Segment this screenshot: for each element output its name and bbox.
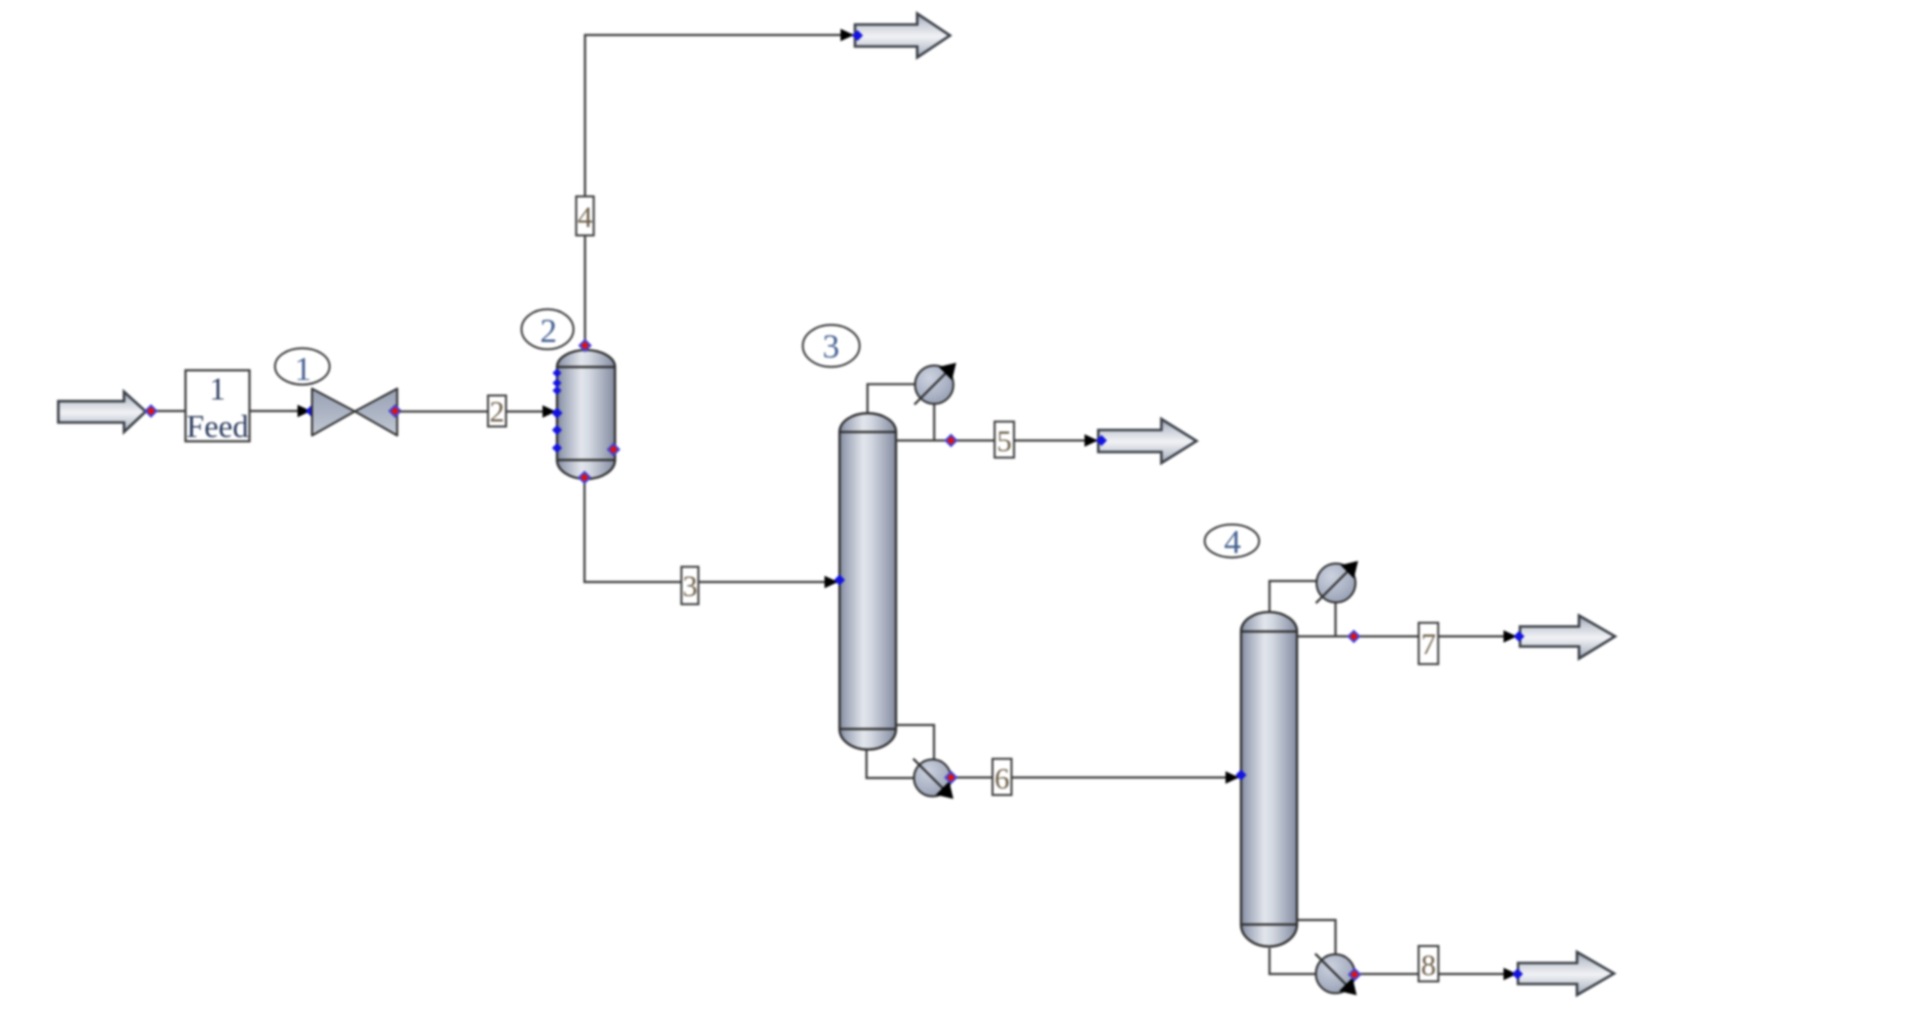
reboiler B3 diagonal <box>913 759 947 793</box>
wire column B4 side to reboiler top <box>1297 920 1336 955</box>
wire stream 6 <box>951 776 1238 778</box>
svg-text:7: 7 <box>1421 628 1436 661</box>
port blue diamond outlet4 start <box>852 30 863 41</box>
wire condenser B4 down to stream 7 <box>1334 601 1336 636</box>
reboiler B4 circle <box>1316 954 1355 993</box>
Feed block (stream source) <box>186 370 250 441</box>
svg-text:4: 4 <box>578 201 593 234</box>
drum port blue diamonds on left shell <box>553 369 562 378</box>
port blue diamond valve inlet <box>306 406 317 417</box>
wire valve to flash drum (stream 2) <box>400 410 556 412</box>
wire column B4 top to condenser <box>1270 581 1318 613</box>
column B4 vessel <box>1241 612 1297 947</box>
stream label box 7 <box>1419 623 1439 664</box>
flow arrowhead into outlet 7 <box>1504 630 1518 642</box>
reboiler B4 arrowhead <box>1339 978 1357 996</box>
column B3 vessel <box>840 413 897 749</box>
drum port red diamond bottom <box>579 472 590 483</box>
port red diamond valve outlet <box>390 406 401 417</box>
outlet block arrow stream 7 <box>1520 616 1615 659</box>
svg-text:2: 2 <box>490 396 505 429</box>
wire drum top to vapour outlet (stream 4) <box>585 35 853 346</box>
condenser B3 circle <box>915 366 953 404</box>
drum port red diamond right shell <box>608 444 619 455</box>
condenser B4 diagonal <box>1316 567 1352 603</box>
port blue diamond outlet 5 <box>1096 435 1107 446</box>
column B3 tangent lines <box>840 431 897 433</box>
valve B1 (bowtie) <box>312 389 355 436</box>
svg-text:8: 8 <box>1421 949 1436 982</box>
flow arrowhead into outlet 5 <box>1085 434 1099 446</box>
reboiler B3 circle <box>914 759 951 796</box>
port red diamond stream 6 <box>946 772 957 783</box>
unit label ellipse 1 (valve) <box>275 348 330 384</box>
wire feed inlet to Feed block <box>146 410 186 412</box>
stream label box 2 <box>488 396 506 427</box>
stream label box 8 <box>1419 946 1439 981</box>
flow arrowhead into drum <box>543 405 557 417</box>
outlet block arrow stream 5 <box>1098 419 1196 463</box>
stream label box 5 <box>995 422 1014 458</box>
condenser B4 circle <box>1317 564 1356 603</box>
wire column B3 top to condenser <box>868 384 917 414</box>
svg-text:1: 1 <box>295 351 312 388</box>
port red diamond stream 5 <box>946 435 957 446</box>
svg-text:1: 1 <box>210 371 226 407</box>
wire column B3 bottom to reboiler <box>867 748 915 778</box>
port blue diamond column B4 feed <box>1236 770 1247 781</box>
reboiler B3 arrowhead <box>936 781 954 799</box>
stream label box 6 <box>993 759 1012 795</box>
wire stream 5 <box>896 439 1097 441</box>
port red diamond stream 7 <box>1348 631 1359 642</box>
wire stream 7 <box>1297 635 1516 637</box>
flow arrowhead into outlet 8 <box>1504 968 1518 980</box>
reboiler B4 diagonal <box>1315 954 1350 989</box>
svg-text:4: 4 <box>1224 524 1241 561</box>
svg-text:3: 3 <box>823 329 840 366</box>
drum port red diamond top <box>580 340 591 351</box>
inlet block arrow (process feed) <box>58 392 145 432</box>
port blue diamond outlet 7 <box>1514 631 1525 642</box>
outlet block arrow stream 8 <box>1518 952 1614 995</box>
svg-text:6: 6 <box>995 763 1010 796</box>
port blue diamond outlet 8 <box>1512 969 1523 980</box>
wire column B4 bottom to reboiler <box>1270 948 1316 974</box>
port blue diamond column B3 feed <box>834 575 845 586</box>
flow arrowhead into column B3 <box>825 576 839 588</box>
svg-text:5: 5 <box>997 425 1012 458</box>
port red diamond at inlet arrow tip <box>146 406 157 417</box>
stream label box 4 <box>576 196 594 235</box>
stream label box 3 <box>681 567 698 604</box>
flow arrowhead into valve <box>298 405 312 417</box>
outlet block arrow stream 4 <box>855 14 950 58</box>
unit label ellipse 4 (column B4) <box>1205 525 1259 558</box>
svg-text:3: 3 <box>683 570 698 603</box>
condenser B4 arrowhead <box>1341 561 1359 579</box>
port red diamond stream 8 <box>1349 969 1360 980</box>
drum tangent lines <box>557 366 615 368</box>
wire column B3 side to reboiler top <box>896 725 934 760</box>
unit label ellipse 3 (column B3) <box>803 325 860 367</box>
unit label ellipse 2 (flash drum) <box>522 309 574 349</box>
wire drum bottom to column B3 (stream 3) <box>585 478 838 582</box>
flash drum B2 vessel <box>557 350 615 479</box>
condenser B3 arrowhead <box>939 363 957 381</box>
wire Feed block to valve <box>250 410 311 412</box>
svg-text:Feed: Feed <box>186 408 248 444</box>
flow arrowhead into outlet 4 <box>841 29 855 41</box>
wire condenser B3 down to stream 5 <box>933 403 935 441</box>
column B4 tangent lines <box>1241 630 1297 632</box>
flow arrowhead into column B4 feed <box>1226 771 1240 783</box>
svg-text:2: 2 <box>540 313 557 350</box>
condenser B3 diagonal <box>914 369 950 405</box>
wire stream 8 <box>1354 973 1516 975</box>
